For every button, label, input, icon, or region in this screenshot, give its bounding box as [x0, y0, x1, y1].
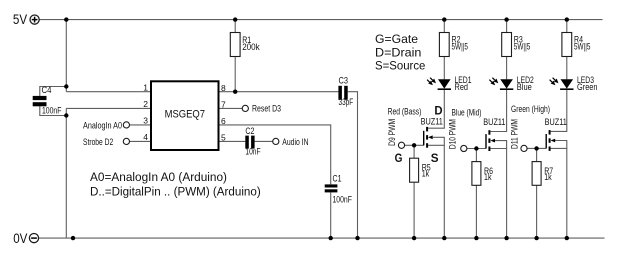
svg-text:G: G: [395, 151, 403, 165]
svg-text:C4: C4: [42, 85, 52, 95]
wire: R7 top: [536, 148, 538, 161]
resistor R6: [472, 162, 481, 186]
wire: Q1 source to 0V: [428, 145, 444, 238]
wire: Q2 source to 0V: [490, 149, 506, 239]
svg-text:D10 PWM: D10 PWM: [447, 119, 457, 149]
wire: C2 to Audio IN terminal: [255, 140, 273, 142]
node: D10 PWM terminal: [461, 145, 467, 151]
svg-text:6: 6: [221, 116, 226, 126]
node: 5V/R1 junction: [233, 17, 237, 21]
node: source/0V junction: [504, 236, 508, 240]
0V supply terminal: [29, 234, 38, 243]
svg-text:D=Drain: D=Drain: [375, 45, 422, 59]
svg-text:1k: 1k: [422, 168, 430, 178]
op-amp U1 MSGEQ7 IC body: [151, 81, 219, 150]
svg-text:4: 4: [143, 132, 148, 142]
svg-text:100nF: 100nF: [42, 106, 62, 116]
svg-text:1: 1: [143, 83, 148, 93]
svg-text:BUZ11: BUZ11: [545, 117, 567, 127]
svg-text:100nF: 100nF: [333, 195, 353, 205]
wire: gate of Q3: [527, 147, 546, 149]
wire: R2 to LED1: [443, 57, 445, 80]
resistor R3: [502, 33, 512, 57]
svg-text:G=Gate: G=Gate: [375, 32, 418, 46]
svg-text:1k: 1k: [544, 172, 552, 182]
node: 5V/left drop junction: [64, 17, 68, 21]
wire: C3 to 0V: [348, 92, 358, 238]
wire: R5 to 0V: [413, 182, 415, 238]
svg-text:1k: 1k: [484, 172, 492, 182]
node: 0V left junction: [71, 236, 75, 240]
svg-text:BUZ11: BUZ11: [421, 116, 443, 126]
resistor R7: [532, 162, 541, 186]
svg-text:C3: C3: [339, 76, 349, 86]
wire: LED3 to Q3 drain: [551, 90, 567, 131]
svg-text:D11 PWM: D11 PWM: [509, 119, 519, 149]
node: C4 bottom junction: [64, 113, 68, 117]
wire: pin 6 to C1: [219, 125, 331, 184]
node: D11 PWM terminal: [521, 145, 527, 151]
svg-text:Blue (Mid): Blue (Mid): [452, 108, 482, 118]
node: source/0V junction: [442, 236, 446, 240]
wire: 5V to R3 (channel 2): [506, 20, 508, 33]
wire: C4 bottom stub: [40, 106, 67, 115]
svg-text:5V: 5V: [13, 12, 27, 27]
svg-text:10nF: 10nF: [245, 147, 261, 157]
LED2 light arrows: [489, 78, 498, 86]
node: C3/0V junction: [355, 236, 359, 240]
wire: LED1 to Q1 drain: [428, 90, 444, 128]
svg-text:Green: Green: [577, 82, 598, 92]
svg-text:Strobe D2: Strobe D2: [83, 137, 113, 147]
wire: 5V to R4 (channel 3): [566, 20, 568, 33]
node: D9 PWM terminal: [398, 142, 404, 148]
svg-text:Audio IN: Audio IN: [282, 137, 308, 147]
wire: 5V to R1: [234, 20, 236, 33]
node: gate/R7 junction: [534, 146, 538, 150]
wire: gate of Q2: [467, 148, 486, 150]
wire: R5 top: [413, 145, 415, 158]
capacitor C4: [33, 96, 47, 106]
capacitor C2: [245, 136, 254, 149]
svg-text:5W||5: 5W||5: [514, 42, 531, 52]
5V supply terminal: [30, 15, 39, 24]
wire: pin 7 to Reset D3 terminal: [219, 107, 243, 109]
svg-text:5W||5: 5W||5: [574, 42, 591, 52]
resistor R2: [439, 33, 449, 57]
LED2 Blue diode symbol: [500, 79, 513, 90]
node: R6/0V junction: [474, 236, 478, 240]
wire: Q2 body connection: [495, 141, 507, 149]
node: 5V junction channel 3: [565, 17, 569, 21]
resistor R1: [230, 33, 240, 57]
svg-text:200k: 200k: [242, 42, 260, 52]
capacitor C3: [338, 86, 347, 100]
wire: LED2 to Q2 drain: [490, 90, 506, 132]
wire: 5V to R2 (channel 1): [443, 20, 445, 33]
node: Reset D3 terminal: [242, 105, 248, 111]
transistor Q2 BUZ11 MOSFET symbol: [486, 130, 495, 151]
svg-text:Green (High): Green (High): [511, 104, 550, 114]
LED1 light arrows: [427, 78, 436, 86]
svg-text:D9 PWM: D9 PWM: [387, 119, 397, 146]
node: gate/R5 junction: [412, 143, 416, 147]
node: Audio IN terminal: [273, 138, 279, 144]
node: AnalogIn A0 terminal: [123, 122, 129, 128]
svg-text:5: 5: [221, 133, 226, 143]
svg-text:Blue: Blue: [517, 82, 532, 92]
resistor R5: [410, 158, 419, 182]
transistor Q3 BUZ11 MOSFET symbol: [546, 130, 555, 151]
svg-text:C2: C2: [245, 126, 254, 136]
wire: Strobe D2 terminal to pin 4: [130, 140, 152, 142]
svg-text:0V: 0V: [13, 231, 27, 246]
node: 5V junction channel 2: [504, 17, 508, 21]
svg-text:D: D: [434, 104, 443, 118]
wire: pin 2: [66, 107, 151, 109]
node: C4 top junction: [64, 84, 68, 88]
LED3 light arrows: [550, 78, 559, 86]
svg-text:S=Source: S=Source: [375, 59, 426, 73]
node: C1/0V junction: [329, 236, 333, 240]
5V rail wire: [39, 19, 602, 21]
wire: Q3 body connection: [555, 141, 567, 149]
wire: 5V drop to pin 1: [65, 20, 67, 92]
wire: R4 to LED3: [566, 57, 568, 80]
node: Strobe D2 terminal: [123, 138, 129, 144]
wire: R7 to 0V: [536, 185, 538, 238]
svg-text:2: 2: [143, 99, 148, 109]
wire: R1 to pin 8: [234, 57, 236, 92]
wire: R6 top: [475, 149, 477, 162]
node: gate/R6 junction: [474, 146, 478, 150]
svg-text:D..=DigitalPin .. (PWM) (Ardui: D..=DigitalPin .. (PWM) (Arduino): [90, 185, 261, 199]
svg-text:AnalogIn A0: AnalogIn A0: [83, 120, 122, 130]
wire: Q3 source to 0V: [551, 148, 567, 238]
0V rail wire: [39, 237, 605, 239]
wire: pin 2 down to 0V rail: [65, 108, 67, 238]
wire: R3 to LED2: [506, 57, 508, 80]
wire: pin 1: [66, 91, 151, 93]
LED3 Green diode symbol: [560, 79, 573, 90]
resistor R4: [562, 33, 572, 57]
svg-text:7: 7: [221, 100, 226, 110]
LED1 Red diode symbol: [438, 79, 451, 90]
svg-text:3: 3: [143, 116, 148, 126]
wire: pin 8 to C3: [219, 91, 339, 93]
wire: pin 5 to C2: [219, 140, 246, 142]
svg-text:Red: Red: [455, 82, 469, 92]
capacitor C1: [325, 184, 338, 192]
svg-text:33pF: 33pF: [339, 97, 354, 107]
wire: C4 top stub: [40, 87, 67, 96]
svg-text:5W||5: 5W||5: [452, 42, 469, 52]
node: source/0V junction: [565, 236, 569, 240]
node: R5/0V junction: [412, 236, 416, 240]
wire: C1 to 0V: [330, 192, 332, 238]
svg-text:C1: C1: [333, 174, 342, 184]
wire: gate of Q1: [405, 144, 424, 146]
node: pin8/R1/C3 junction: [233, 90, 237, 94]
svg-text:Red (Bass): Red (Bass): [388, 107, 422, 117]
wire: Q1 body connection: [433, 137, 445, 145]
wire: AnalogIn A0 terminal to pin 3: [130, 124, 152, 126]
svg-text:S: S: [431, 151, 439, 165]
transistor Q1 BUZ11 MOSFET symbol: [424, 127, 433, 148]
node: 5V junction channel 1: [442, 17, 446, 21]
svg-text:Reset D3: Reset D3: [252, 104, 281, 114]
svg-text:8: 8: [221, 83, 226, 93]
svg-text:A0=AnalogIn A0 (Arduino): A0=AnalogIn A0 (Arduino): [90, 170, 227, 184]
node: R7/0V junction: [534, 236, 538, 240]
svg-text:BUZ11: BUZ11: [483, 117, 505, 127]
wire: R6 to 0V: [475, 185, 477, 238]
svg-text:MSGEQ7: MSGEQ7: [165, 109, 205, 121]
